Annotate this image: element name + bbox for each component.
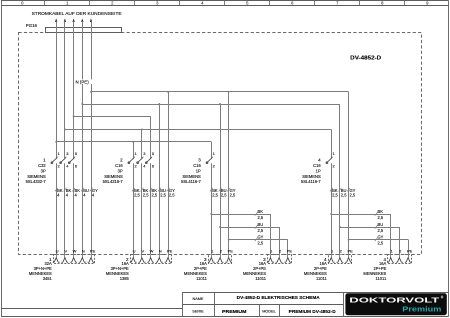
- svg-text:2,5: 2,5: [350, 193, 356, 198]
- svg-text:2,5: 2,5: [152, 193, 158, 198]
- jumper BK socket 4a to 4b: [330, 209, 390, 254]
- circuit breaker 1 C32 3P SIEMENS 5SL4332-7: [26, 151, 78, 184]
- svg-text:DOKTORVOLT: DOKTORVOLT: [349, 296, 440, 305]
- svg-text:PE: PE: [407, 248, 413, 253]
- svg-text:DV-4852-D: DV-4852-D: [350, 55, 381, 61]
- svg-text:1P: 1P: [316, 168, 321, 173]
- svg-text:2,5: 2,5: [258, 228, 264, 233]
- wire colour labels under breaker 3: [210, 188, 236, 198]
- svg-text:N: N: [159, 248, 162, 253]
- svg-text:5SL4116-7: 5SL4116-7: [181, 179, 201, 184]
- circuit breaker 2 C16 3P SIEMENS 5SL4316-7: [103, 151, 155, 184]
- title block: [182, 293, 448, 317]
- wire PE input (vertical): [91, 21, 93, 254]
- svg-text:STROMKABEL AUF DER KUNDENSEITE: STROMKABEL AUF DER KUNDENSEITE: [32, 11, 122, 16]
- incoming supply arrows: [55, 18, 92, 22]
- svg-text:11011: 11011: [255, 276, 266, 281]
- svg-text:W: W: [73, 248, 77, 253]
- svg-text:N: N: [82, 248, 85, 253]
- svg-text:2,5: 2,5: [143, 193, 149, 198]
- svg-text:SERIE: SERIE: [192, 310, 204, 314]
- svg-text:1P: 1P: [196, 168, 201, 173]
- svg-text:C16: C16: [115, 163, 123, 168]
- svg-text:PE: PE: [167, 248, 173, 253]
- svg-text:2,5: 2,5: [332, 193, 338, 198]
- svg-text:11011: 11011: [376, 276, 387, 281]
- svg-text:W: W: [150, 248, 154, 253]
- svg-text:2,5: 2,5: [258, 215, 264, 220]
- svg-text:2,5: 2,5: [378, 240, 384, 245]
- svg-text:11011: 11011: [316, 276, 327, 281]
- bus PE (horizontal) with taps: [90, 91, 349, 254]
- wire breaker 4 output to socket 4: [331, 163, 333, 254]
- svg-text:PREMIUM DV-4852-D: PREMIUM DV-4852-D: [289, 309, 336, 314]
- wire L1 input (vertical): [56, 21, 58, 254]
- svg-text:3P: 3P: [41, 168, 46, 173]
- jumper GY socket 3a to 3b: [228, 234, 288, 254]
- socket outlet 2 16A 3P+N+PE MENNEKES 1385: [106, 248, 173, 281]
- svg-text:V: V: [64, 248, 67, 253]
- svg-text:2,5: 2,5: [378, 228, 384, 233]
- wire colour labels under breaker 2: [132, 188, 175, 198]
- svg-text:GY: GY: [258, 234, 264, 239]
- jumper GY socket 4a to 4b: [348, 234, 409, 254]
- svg-text:Premium: Premium: [402, 305, 441, 314]
- svg-text:BK: BK: [258, 209, 264, 214]
- svg-text:2,5: 2,5: [134, 193, 140, 198]
- svg-text:N (PE): N (PE): [76, 79, 90, 84]
- svg-text:PG16: PG16: [26, 23, 38, 28]
- svg-text:1385: 1385: [120, 276, 130, 281]
- wire colour labels under breaker 4: [330, 188, 356, 198]
- circuit breaker 4 C16 1P SIEMENS 5SL4116-7: [301, 151, 336, 184]
- svg-text:NAME: NAME: [193, 297, 204, 301]
- label STROMKABEL AUF DER KUNDENSEITE: [32, 11, 122, 16]
- svg-text:5SL4316-7: 5SL4316-7: [103, 179, 124, 184]
- svg-text:PE: PE: [228, 248, 234, 253]
- svg-text:PREMIUM: PREMIUM: [222, 309, 247, 314]
- svg-text:BU: BU: [258, 222, 264, 227]
- svg-text:2,5: 2,5: [160, 193, 166, 198]
- svg-text:PE: PE: [287, 248, 293, 253]
- wire N input (vertical): [82, 21, 84, 254]
- bus L3 (horizontal): [73, 115, 151, 158]
- svg-text:11011: 11011: [196, 276, 207, 281]
- svg-text:U: U: [133, 248, 136, 253]
- svg-text:2,5: 2,5: [212, 193, 218, 198]
- svg-text:2,5: 2,5: [378, 215, 384, 220]
- bus N (horizontal) with taps: [81, 103, 340, 254]
- svg-text:BU: BU: [378, 222, 384, 227]
- net label N (PE): [75, 79, 93, 84]
- socket outlet 4 16A 2P+PE MENNEKES 11011 (a): [304, 248, 353, 281]
- svg-text:2,5: 2,5: [258, 240, 264, 245]
- svg-text:5SL4332-7: 5SL4332-7: [26, 179, 47, 184]
- svg-text:3451: 3451: [43, 276, 53, 281]
- svg-text:DV-4852-D ELEKTRISCHES SCHEMA: DV-4852-D ELEKTRISCHES SCHEMA: [237, 295, 321, 300]
- socket outlet 4 16A 2P+PE MENNEKES 11011 (b): [363, 248, 412, 281]
- svg-text:2,5: 2,5: [341, 193, 347, 198]
- svg-text:PE: PE: [348, 248, 354, 253]
- socket outlet 3 16A 2P+PE MENNEKES 11011 (b): [243, 248, 292, 281]
- wires breaker 2 outputs to socket 2: [134, 163, 151, 254]
- bus L2 (horizontal) with taps: [64, 128, 332, 158]
- wire L3 input (vertical): [73, 21, 75, 254]
- svg-text:U: U: [56, 248, 59, 253]
- svg-text:MODEL: MODEL: [262, 310, 276, 314]
- wire colour labels under breaker 1: [55, 188, 98, 198]
- socket outlet 1 32A 3P+N+PE MENNEKES 3451: [29, 248, 96, 281]
- wire L2 input (vertical): [64, 21, 66, 254]
- svg-text:C16: C16: [193, 163, 201, 168]
- svg-text:2,5: 2,5: [169, 193, 175, 198]
- svg-text:PE: PE: [90, 248, 96, 253]
- svg-text:GY: GY: [378, 234, 384, 239]
- jumper BK socket 3a to 3b: [210, 209, 270, 254]
- enclosure boundary (dashed): [19, 33, 422, 255]
- bus L1 (horizontal) with taps: [55, 141, 211, 158]
- svg-text:BK: BK: [378, 209, 384, 214]
- svg-text:C32: C32: [38, 163, 46, 168]
- svg-text:3P: 3P: [118, 168, 123, 173]
- svg-text:C16: C16: [313, 163, 321, 168]
- svg-text:5SL4116-7: 5SL4116-7: [301, 179, 321, 184]
- jumper BU socket 3a to 3b: [219, 222, 279, 254]
- socket outlet 3 16A 2P+PE MENNEKES 11011 (a): [184, 248, 233, 281]
- circuit breaker 3 C16 1P SIEMENS 5SL4116-7: [181, 151, 216, 184]
- jumper BU socket 4a to 4b: [339, 222, 400, 254]
- svg-text:V: V: [141, 248, 144, 253]
- drawing label DV-4852-D: [350, 55, 381, 61]
- cable gland PG16: [26, 23, 122, 33]
- wire breaker 3 output to socket 3: [211, 163, 213, 254]
- svg-text:2,5: 2,5: [230, 193, 236, 198]
- svg-text:2,5: 2,5: [221, 193, 227, 198]
- DOKTORVOLT Premium logo: [345, 293, 446, 315]
